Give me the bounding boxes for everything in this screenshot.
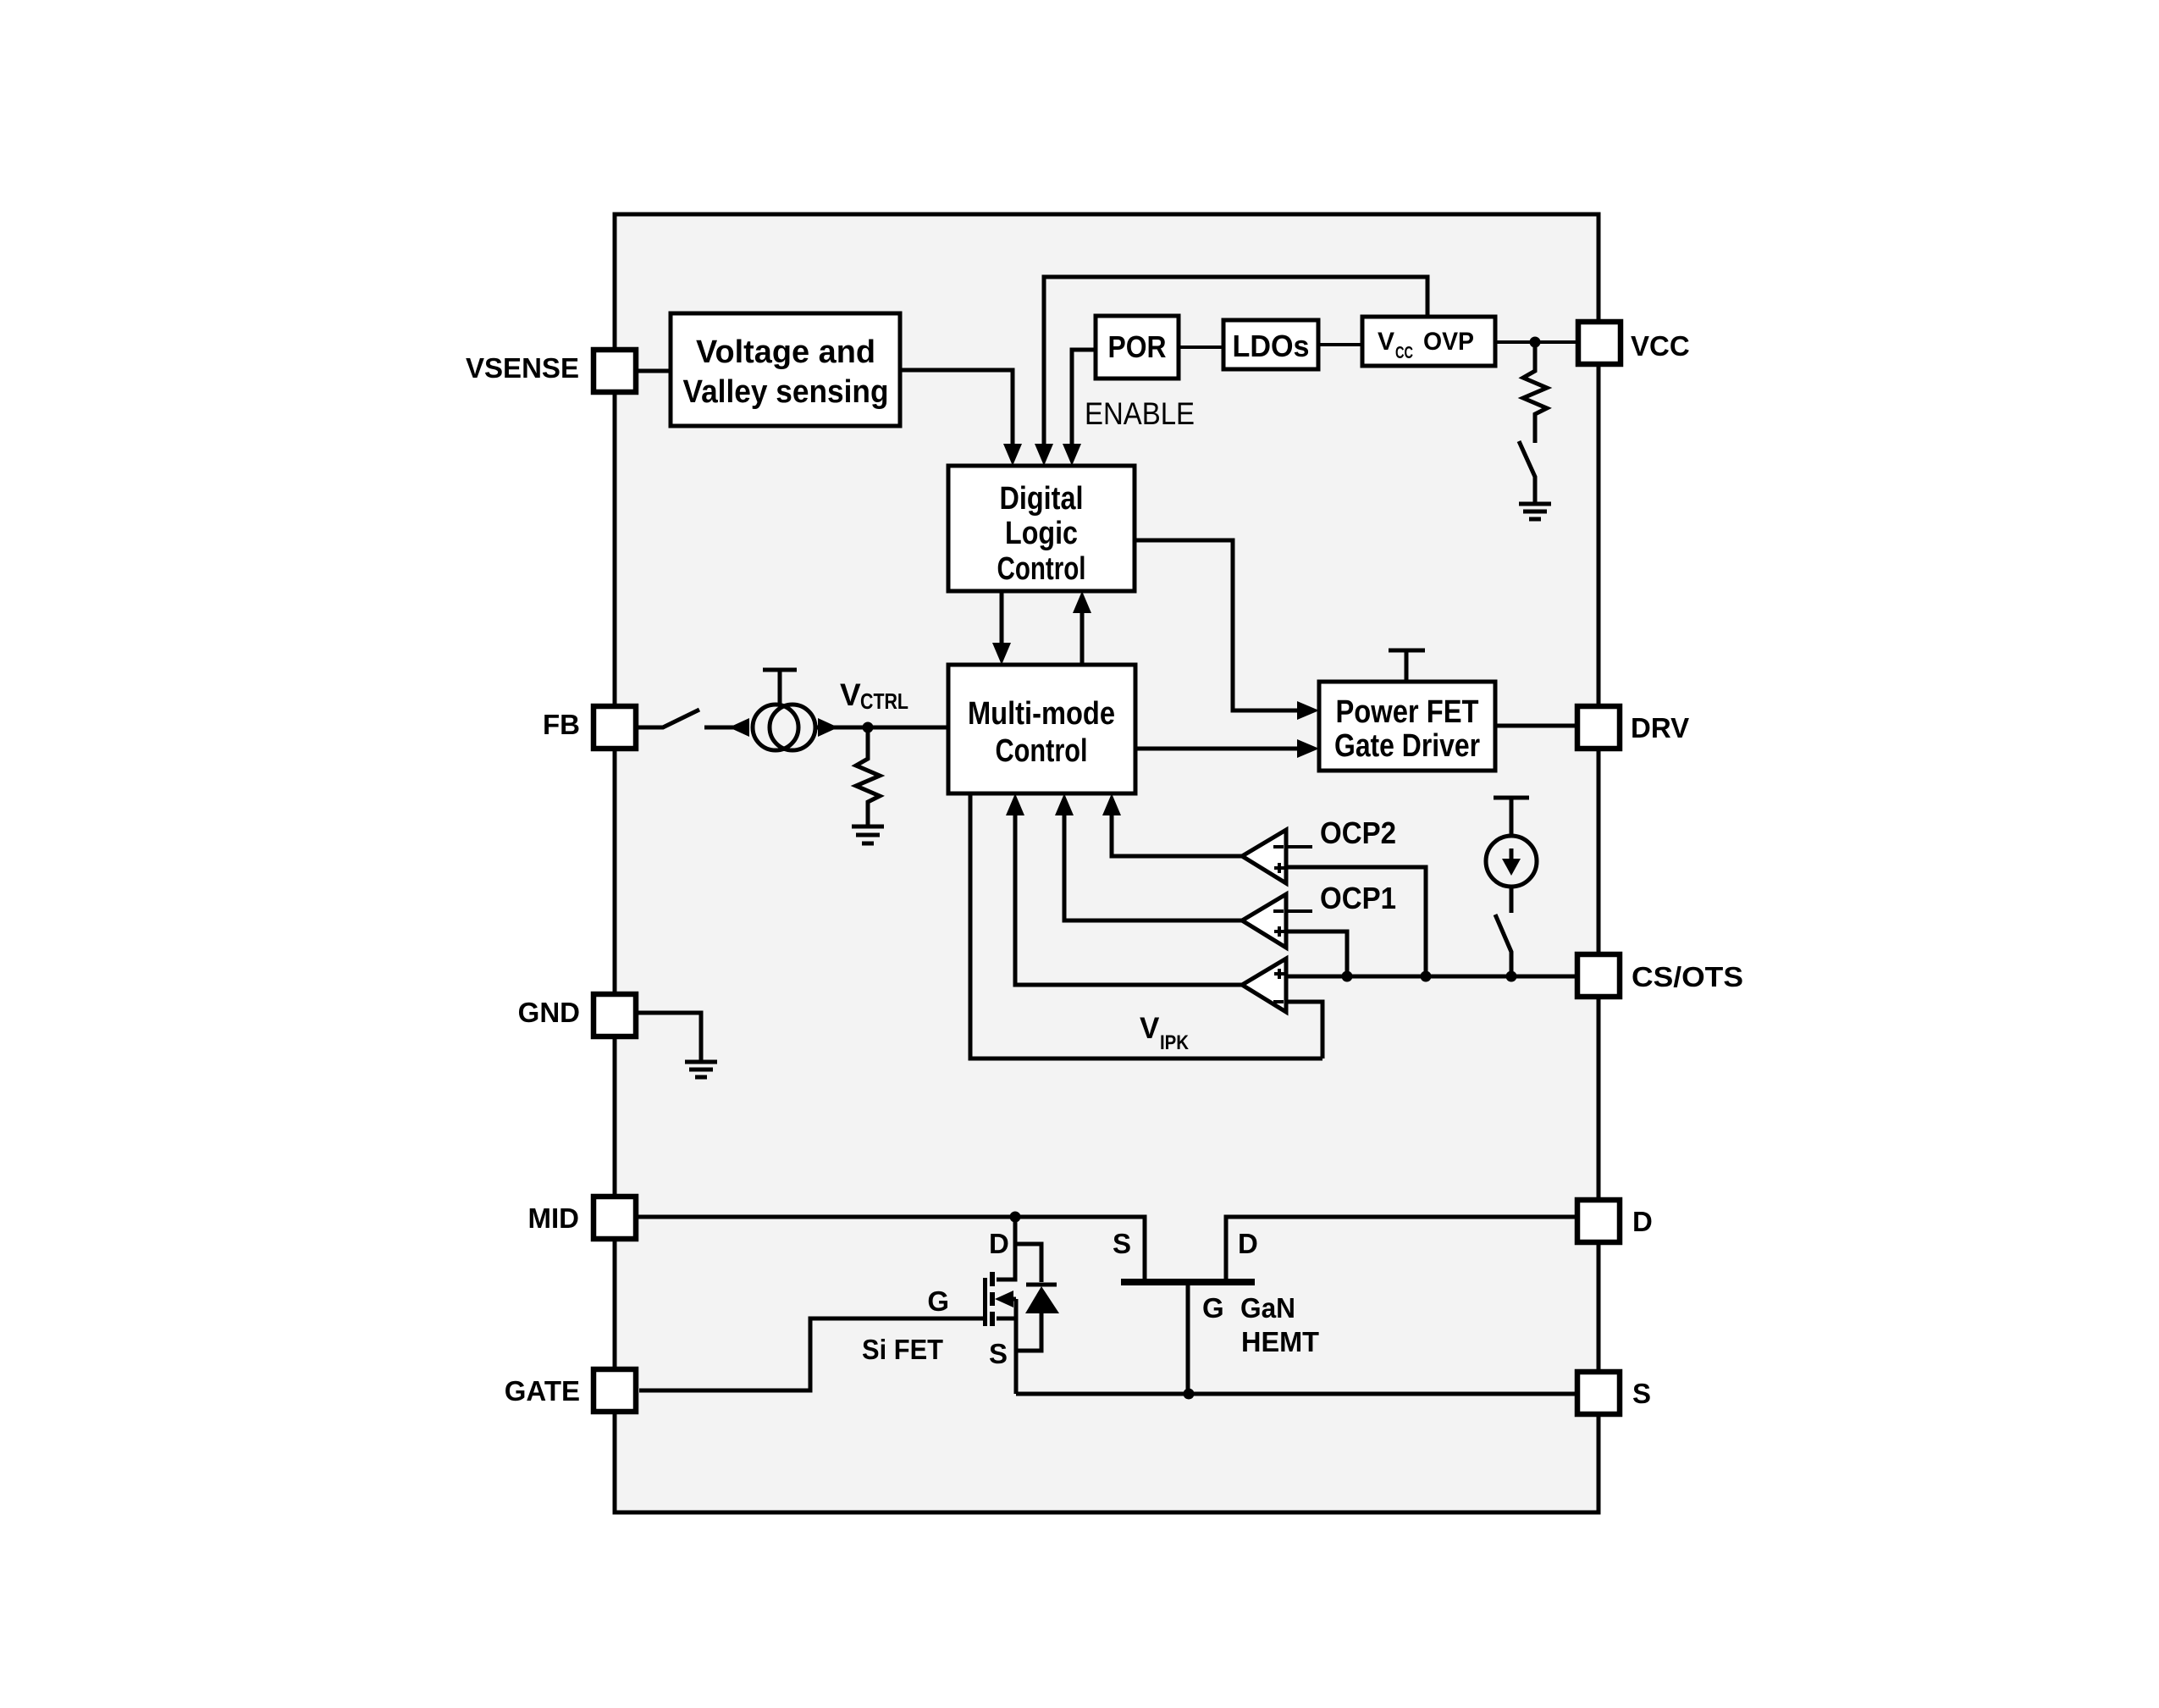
svg-text:OVP: OVP: [1423, 328, 1474, 356]
svg-text:S: S: [989, 1338, 1008, 1369]
svg-text:DRV: DRV: [1631, 712, 1689, 743]
svg-text:Logic: Logic: [1005, 516, 1078, 551]
svg-text:CS/OTS: CS/OTS: [1632, 961, 1743, 992]
svg-text:MID: MID: [528, 1202, 580, 1234]
svg-text:V: V: [1378, 328, 1394, 356]
svg-text:Multi-mode: Multi-mode: [968, 696, 1115, 732]
svg-text:V: V: [1140, 1012, 1160, 1045]
svg-text:Voltage and: Voltage and: [696, 334, 875, 370]
svg-text:GaN: GaN: [1240, 1292, 1295, 1324]
svg-text:HEMT: HEMT: [1241, 1326, 1319, 1357]
svg-text:FB: FB: [543, 709, 580, 740]
svg-text:Power FET: Power FET: [1336, 694, 1479, 730]
svg-text:OCP1: OCP1: [1320, 881, 1396, 915]
svg-text:Valley sensing: Valley sensing: [683, 374, 889, 410]
svg-text:S: S: [1632, 1378, 1651, 1409]
svg-text:CC: CC: [1395, 344, 1413, 362]
svg-text:Gate Driver: Gate Driver: [1334, 728, 1480, 764]
svg-text:IPK: IPK: [1160, 1031, 1190, 1054]
svg-text:Si FET: Si FET: [862, 1334, 943, 1365]
svg-text:OCP2: OCP2: [1320, 815, 1396, 850]
svg-text:G: G: [927, 1285, 949, 1317]
svg-text:Control: Control: [996, 733, 1088, 769]
svg-text:GATE: GATE: [505, 1375, 580, 1407]
svg-text:D: D: [1238, 1228, 1258, 1259]
svg-text:LDOs: LDOs: [1233, 329, 1310, 363]
svg-text:Control: Control: [997, 551, 1086, 587]
svg-text:POR: POR: [1108, 329, 1167, 364]
svg-text:G: G: [1202, 1292, 1224, 1324]
svg-text:ENABLE: ENABLE: [1085, 396, 1195, 431]
svg-text:VCC: VCC: [1631, 330, 1690, 362]
svg-text:S: S: [1113, 1228, 1131, 1259]
svg-text:Digital: Digital: [1000, 481, 1084, 517]
svg-text:GND: GND: [518, 997, 580, 1028]
svg-text:V: V: [840, 677, 861, 712]
svg-text:D: D: [1632, 1206, 1653, 1237]
svg-text:VSENSE: VSENSE: [466, 352, 579, 384]
svg-text:CTRL: CTRL: [860, 688, 908, 714]
svg-text:D: D: [989, 1228, 1009, 1259]
